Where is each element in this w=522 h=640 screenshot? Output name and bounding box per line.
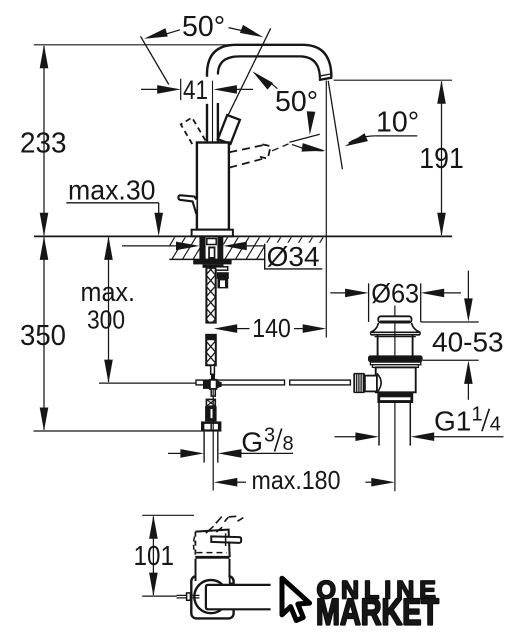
dim 140 line left — [234, 328, 250, 330]
dim 101 arrow down — [149, 573, 158, 597]
waste neck right wall — [412, 335, 414, 356]
shank right wall (threaded) — [217, 237, 223, 260]
waste mounting ring (black) — [368, 355, 423, 362]
dim ref line max300 bottom (rod level) — [99, 382, 196, 384]
dimension 350 vertical line — [43, 238, 45, 430]
dim Ø63 extension line right — [420, 283, 422, 322]
side view dashed arc left — [194, 537, 195, 554]
dim max180 line right — [365, 481, 374, 483]
mounting nut — [203, 264, 224, 267]
waste plug cap — [378, 316, 411, 322]
dimension 233 vertical line — [43, 46, 45, 235]
dim Ø34 arrow right-pointing — [176, 242, 200, 251]
svg-text:3: 3 — [264, 425, 275, 447]
leader 50deg-top right — [229, 28, 249, 32]
dimension max300 vertical line — [108, 238, 110, 382]
waste bell rim right edge — [419, 332, 421, 335]
dim Ø34 line left — [122, 245, 179, 247]
pop-up rod right segment — [290, 380, 351, 385]
faucet centerline upper — [212, 81, 214, 236]
G3-8 union nut — [201, 421, 221, 431]
dim Ø63 arrow right-pointing — [345, 289, 369, 298]
logo cursor arrow icon — [282, 578, 310, 620]
waste bell right curve — [412, 323, 421, 332]
dim 233 arrow up — [40, 45, 49, 69]
rod T-connector right taper — [217, 380, 222, 388]
dim 101 ref line top — [142, 514, 194, 516]
dim Ø63 line right — [441, 292, 461, 294]
dim 233 arrow down — [40, 213, 49, 237]
svg-text:1: 1 — [472, 403, 483, 425]
dim max180 arrow right-pointing — [371, 478, 395, 487]
faucet base flange — [192, 230, 233, 237]
shank left wall (threaded) — [199, 237, 205, 260]
arrow 50deg-top left — [143, 28, 168, 43]
dim G3-8 arrow left-pointing — [218, 449, 242, 458]
dim Ø34 line right — [244, 245, 265, 247]
svg-text:max.180: max.180 — [252, 465, 341, 495]
Ø34 label box — [265, 244, 323, 269]
leader 10deg curve — [349, 136, 375, 143]
handle dashed position right lower line — [229, 158, 266, 168]
waste pipe left wall — [378, 403, 380, 446]
flex hose lower braided fill — [206, 335, 216, 366]
dim 41 arrow right-pointing — [157, 85, 181, 94]
waste bell left curve — [371, 323, 379, 332]
dim 41 line left — [141, 88, 162, 90]
dim G3-8 line left — [168, 452, 183, 454]
waste pipe right wall — [409, 403, 411, 446]
spout mouth aerator line — [321, 74, 332, 76]
shank inner lower part — [208, 247, 215, 260]
counter cross-section hatching — [150, 237, 345, 261]
waste bell rim left edge — [369, 332, 371, 335]
dim ref line top (spout top level) — [34, 44, 288, 46]
side view handle lever bar — [211, 536, 241, 543]
arrow 10deg — [343, 133, 368, 150]
side view dashed lever-down line — [197, 552, 228, 554]
handle dashed position right end cap — [260, 144, 271, 158]
flex hose upper outline — [206, 268, 215, 323]
svg-text:G: G — [241, 427, 263, 458]
dim 40-53 arrow up — [464, 360, 473, 384]
handle lever solid (tilted right) — [218, 115, 240, 144]
side view top section left dashed edge — [194, 532, 196, 558]
side view handle mid dashes — [206, 526, 222, 533]
dim ref line bottom (350 / G3-8 nut level) — [34, 430, 202, 432]
rod T-connector center — [210, 380, 217, 389]
svg-text:8: 8 — [283, 433, 294, 455]
rod guide block lower — [218, 279, 229, 288]
waste centerline — [394, 306, 396, 492]
waste side port inner arc — [377, 373, 381, 392]
leader 50deg-top left — [160, 30, 180, 36]
side view base plate notch — [230, 576, 234, 583]
dim 101 arrow up — [149, 515, 158, 539]
handle swing line left (50deg) — [141, 36, 169, 84]
waste washer band — [370, 362, 420, 365]
dim G1-14 arrow left-pointing — [411, 432, 435, 441]
dim 191 arrow up — [437, 80, 446, 104]
underline max.30 — [66, 202, 158, 204]
rod guide block upper — [217, 272, 229, 279]
union nut window right — [212, 424, 218, 430]
fitting upper block cross — [206, 399, 215, 406]
hose end neck — [211, 375, 215, 380]
svg-text:Ø63: Ø63 — [371, 278, 419, 308]
dim 140 arrow right-pointing — [303, 324, 327, 333]
flex hose lower dark cap — [206, 335, 216, 340]
spout mouth bottom edge — [319, 78, 332, 80]
svg-text:G1: G1 — [434, 406, 471, 437]
mounting washer below counter — [193, 260, 231, 265]
fitting upper block — [206, 399, 215, 406]
fitting body block — [205, 406, 217, 421]
dim 40-53 line upper — [467, 271, 469, 302]
dim max180 line left — [234, 481, 246, 483]
counter underside line — [169, 258, 264, 260]
dim 40-53 ref line top — [421, 321, 479, 323]
dim Ø63 extension line left — [368, 283, 370, 322]
rod T-connector left block — [203, 380, 210, 389]
hose end tube — [211, 365, 215, 374]
dim G1-14 line left — [335, 436, 359, 438]
shank inner slot — [210, 248, 214, 257]
label G1-14 slash — [482, 409, 489, 432]
riser tube left wall — [206, 104, 208, 143]
svg-text:10°: 10° — [376, 106, 419, 138]
underline 10deg — [374, 135, 417, 137]
faucet centerline lower — [212, 388, 214, 491]
arrow 50deg-2 arc end — [302, 143, 326, 155]
svg-text:max.30: max.30 — [68, 175, 156, 206]
dim 40-53 line lower — [467, 381, 469, 400]
pop-up rod left segment — [196, 380, 285, 385]
arrow 50deg-2 up — [250, 68, 274, 90]
spout outer contour — [207, 45, 331, 78]
dim G3-8 line right — [239, 452, 294, 454]
dim 41 line right — [233, 88, 253, 90]
dim 191 arrow down — [437, 213, 446, 237]
rod guide bar — [216, 267, 228, 270]
riser tube right wall — [217, 103, 219, 143]
waste washer band 2 — [373, 365, 419, 368]
leader 50deg-2 up — [268, 81, 278, 89]
max.30 arrow down — [154, 213, 163, 237]
supply pipe left wall — [203, 432, 205, 463]
arrow 50deg-2 down — [306, 111, 316, 135]
rod guide block window — [220, 280, 225, 287]
side view body right wall — [229, 559, 231, 577]
svg-text:MARKET: MARKET — [316, 590, 439, 632]
handle dashed axis continuation — [272, 144, 289, 151]
dim max300 arrow down — [104, 360, 113, 384]
waste bell rim upper line — [370, 331, 420, 333]
union nut window left — [204, 424, 210, 430]
leader max.30 drop — [158, 203, 160, 218]
flex hose lower outline — [206, 335, 216, 366]
supply pipe right wall — [217, 432, 219, 463]
waste knob knurling — [355, 374, 357, 392]
dim 41 extension line — [180, 79, 182, 101]
dim G1-14 line right — [431, 436, 504, 438]
side view base plate — [191, 576, 233, 618]
side view spout ball joint circle — [194, 580, 227, 613]
dim Ø34 arrow left-pointing — [223, 242, 247, 251]
shank inner upper part — [207, 239, 216, 245]
side view pop-up rod stub upper — [177, 594, 200, 596]
dim ref line 191 top (spout outlet level) — [334, 79, 452, 81]
waste neck joint line — [375, 336, 416, 338]
side view spout tube — [206, 585, 271, 609]
counter worktop surface line — [34, 235, 452, 237]
arrow 50deg-top right — [240, 25, 265, 41]
svg-text:101: 101 — [134, 540, 175, 571]
dim 350 arrow down — [40, 408, 49, 432]
waste knurled knob — [353, 373, 365, 393]
dim 350 arrow up — [40, 236, 49, 260]
dim Ø63 line left — [330, 292, 348, 294]
waste plug cap dark under-edge — [380, 321, 410, 324]
svg-text:350: 350 — [20, 320, 66, 352]
arc 50deg-2 — [292, 144, 324, 150]
label G3-8 slash — [275, 429, 282, 452]
pop-up rod lever at body rear — [178, 195, 196, 214]
dim max300 arrow up — [104, 236, 113, 260]
dim 40-53 ref line bottom — [423, 359, 479, 361]
side view body fill — [197, 559, 229, 582]
handle dashed position left — [181, 118, 206, 148]
svg-text:140: 140 — [252, 313, 290, 343]
side view body joint thick line — [195, 556, 229, 559]
svg-text:191: 191 — [419, 143, 464, 175]
waste bottom ring slot — [380, 397, 410, 400]
10deg tilted line — [328, 81, 342, 169]
leader 50deg-2 down — [308, 114, 310, 123]
dim 101 ref line bottom — [142, 595, 177, 597]
dim 140 line right — [294, 328, 307, 330]
fitting body slot — [211, 409, 213, 418]
svg-text:max.: max. — [81, 277, 136, 307]
side view top section outline — [195, 530, 229, 558]
dimension 191 vertical line — [441, 82, 443, 236]
waste bell rim lower line — [371, 334, 420, 336]
side view pop-up rod stub lower — [177, 597, 200, 599]
svg-text:50°: 50° — [182, 11, 225, 43]
waste bottom ring (black) — [377, 393, 413, 403]
handle tilt reference line (50deg-2) — [290, 134, 320, 142]
dim max180 arrow left-pointing — [214, 478, 238, 487]
spout outlet vertical extension line — [325, 81, 327, 338]
handle swing line right (50deg crossing line) — [228, 28, 270, 115]
dim 140 arrow left-pointing — [214, 324, 238, 333]
side view lever pivot tick — [225, 533, 227, 546]
dim Ø63 arrow left-pointing — [421, 289, 445, 298]
dimension 101 vertical line — [152, 517, 154, 595]
svg-text:233: 233 — [20, 127, 67, 159]
svg-text:40-53: 40-53 — [432, 326, 504, 357]
svg-text:4: 4 — [490, 413, 501, 435]
waste side port collar — [365, 376, 377, 392]
waste body — [376, 367, 416, 392]
waste neck left wall — [377, 335, 379, 356]
side view body left wall — [195, 559, 197, 581]
handle dashed position right upper line — [229, 145, 262, 152]
dim G1-14 arrow right-pointing — [355, 432, 379, 441]
spout inner contour — [218, 56, 320, 78]
side view rod stub tick — [187, 593, 191, 600]
dim G3-8 arrow right-pointing — [180, 449, 204, 458]
faucet body — [197, 143, 229, 230]
svg-text:Ø34: Ø34 — [267, 241, 320, 272]
dim 41 arrow left-pointing — [213, 85, 237, 94]
svg-text:41: 41 — [183, 75, 208, 105]
dim 40-53 arrow down — [464, 298, 473, 322]
connector tube below T — [211, 389, 215, 396]
flex hose upper braided fill — [206, 268, 215, 323]
svg-text:300: 300 — [87, 304, 125, 334]
side view handle raised dashes — [216, 516, 244, 523]
